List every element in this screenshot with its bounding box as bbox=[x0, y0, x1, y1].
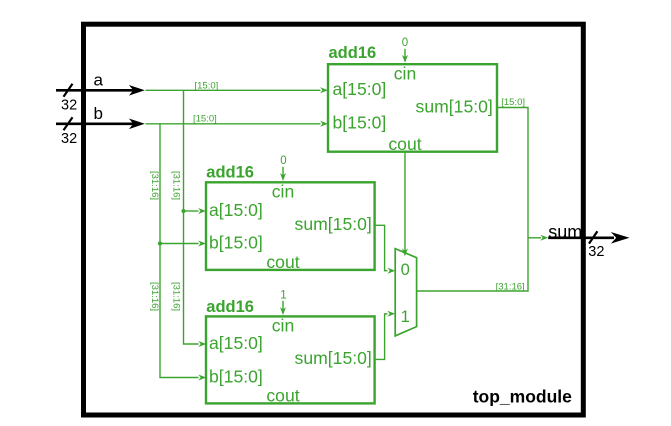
svg-text:1: 1 bbox=[280, 289, 286, 301]
svg-text:0: 0 bbox=[402, 37, 408, 49]
svg-text:cin: cin bbox=[272, 316, 295, 336]
input b bus slash bbox=[64, 117, 73, 130]
svg-text:[15:0]: [15:0] bbox=[501, 97, 525, 108]
svg-text:b[15:0]: b[15:0] bbox=[209, 232, 263, 252]
wire b[31:16] branch to U2 bbox=[160, 243, 199, 245]
junction dot b branch bbox=[158, 241, 162, 245]
wire a[31:16] branch to U2 bbox=[184, 210, 199, 212]
svg-text:sum[15:0]: sum[15:0] bbox=[295, 348, 372, 368]
svg-text:a[15:0]: a[15:0] bbox=[209, 333, 263, 353]
input a arrowhead bbox=[129, 85, 145, 96]
output sum wire bbox=[548, 237, 614, 240]
svg-text:[31:16]: [31:16] bbox=[149, 282, 160, 311]
svg-text:[31:16]: [31:16] bbox=[496, 281, 525, 292]
input a wire bbox=[56, 89, 136, 92]
svg-text:32: 32 bbox=[61, 131, 77, 147]
U3 cin constant wire bbox=[282, 301, 284, 313]
svg-text:sum[15:0]: sum[15:0] bbox=[295, 214, 372, 234]
svg-text:[31:16]: [31:16] bbox=[149, 171, 160, 200]
svg-text:sum[15:0]: sum[15:0] bbox=[416, 96, 493, 116]
arrowhead a to U1 bbox=[320, 87, 328, 93]
svg-text:[15:0]: [15:0] bbox=[193, 113, 217, 124]
junction dot a branch bbox=[181, 209, 185, 213]
svg-text:add16: add16 bbox=[206, 298, 254, 316]
arrowhead b to U2 bbox=[198, 241, 206, 247]
wire b[31:16] vertical bbox=[160, 124, 199, 378]
svg-text:a[15:0]: a[15:0] bbox=[209, 200, 263, 220]
svg-text:cout: cout bbox=[266, 386, 299, 406]
mux select arrowhead bbox=[402, 248, 408, 256]
arrowhead a to U3 bbox=[198, 341, 206, 347]
wire U3 sum to mux input 1 bbox=[375, 314, 388, 360]
svg-text:b[15:0]: b[15:0] bbox=[209, 366, 263, 386]
input a bus slash bbox=[64, 84, 73, 97]
input b arrowhead bbox=[129, 119, 145, 130]
arrowhead b to U1 bbox=[320, 121, 328, 127]
svg-text:1: 1 bbox=[401, 308, 410, 326]
output sum arrowhead bbox=[611, 232, 630, 244]
arrowhead sum node bbox=[540, 235, 548, 241]
svg-text:add16: add16 bbox=[329, 44, 377, 62]
module border top_module bbox=[84, 24, 584, 415]
svg-text:32: 32 bbox=[588, 244, 604, 260]
arrowhead b to U3 bbox=[198, 375, 206, 381]
adder block U2 (middle add16) bbox=[206, 182, 375, 270]
output sum bus slash bbox=[589, 231, 597, 243]
svg-text:a[15:0]: a[15:0] bbox=[333, 79, 387, 99]
svg-text:a: a bbox=[94, 71, 104, 90]
svg-text:[15:0]: [15:0] bbox=[195, 81, 219, 92]
arrowhead a to U2 bbox=[198, 208, 206, 214]
svg-text:0: 0 bbox=[401, 261, 410, 279]
arrowhead into mux 0 bbox=[387, 268, 395, 274]
svg-text:cout: cout bbox=[388, 134, 421, 154]
svg-text:sum: sum bbox=[548, 222, 582, 242]
wire a[15:0] to U1 bbox=[146, 89, 321, 91]
wire U2 sum to mux input 0 bbox=[374, 225, 387, 270]
arrowhead into mux 1 bbox=[387, 311, 395, 317]
mux M1 bbox=[395, 249, 416, 336]
wire U1 cout to mux select bbox=[404, 152, 406, 255]
wire b[15:0] to U1 bbox=[146, 123, 321, 125]
svg-text:top_module: top_module bbox=[473, 387, 572, 407]
U3 cin arrowhead bbox=[280, 307, 286, 315]
U2 cin arrowhead bbox=[280, 173, 286, 181]
svg-text:b[15:0]: b[15:0] bbox=[333, 113, 387, 133]
svg-text:32: 32 bbox=[61, 98, 77, 114]
U1 cin arrowhead bbox=[402, 55, 408, 63]
adder block U1 (top add16) bbox=[328, 64, 497, 152]
svg-text:cin: cin bbox=[394, 63, 417, 83]
wire sum node to output bbox=[528, 237, 541, 239]
svg-text:cin: cin bbox=[272, 182, 295, 202]
U1 cin constant wire bbox=[404, 49, 406, 61]
svg-text:cout: cout bbox=[266, 252, 299, 272]
svg-text:[31:16]: [31:16] bbox=[170, 171, 181, 200]
svg-text:0: 0 bbox=[280, 155, 286, 167]
svg-text:b: b bbox=[94, 104, 103, 123]
svg-text:add16: add16 bbox=[206, 164, 254, 182]
svg-text:[31:16]: [31:16] bbox=[170, 282, 181, 311]
U2 cin constant wire bbox=[282, 167, 284, 179]
input b wire bbox=[56, 123, 136, 126]
adder block U3 (bottom add16) bbox=[206, 316, 375, 403]
wire U1 sum[15:0] out bbox=[417, 108, 528, 292]
wire a[31:16] vertical bbox=[184, 90, 199, 344]
